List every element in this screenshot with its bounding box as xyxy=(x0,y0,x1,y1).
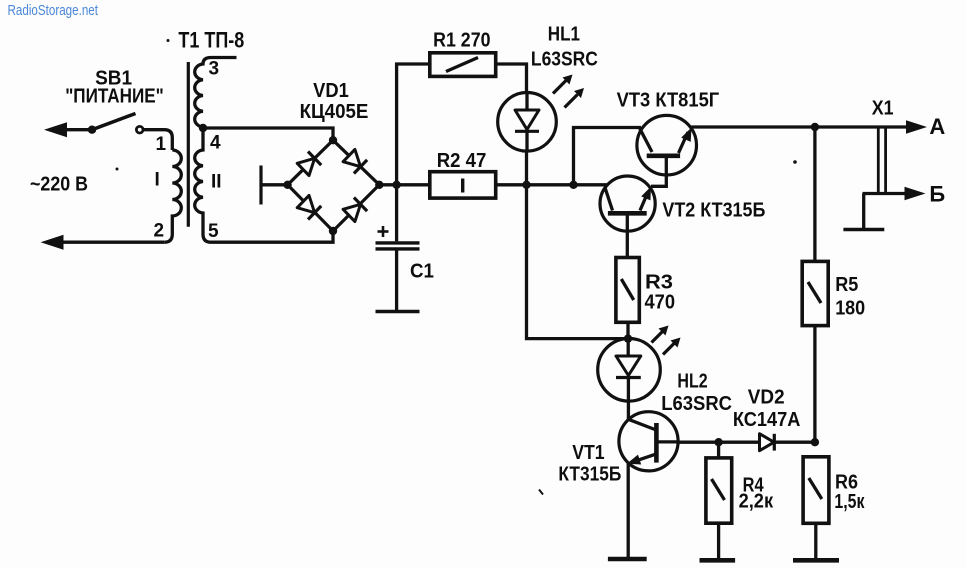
speck near T1 label xyxy=(167,39,170,42)
wire VT1 emitter to ground xyxy=(627,464,630,559)
R2 power mark xyxy=(461,179,464,193)
wire pin5 to bridge bottom xyxy=(211,231,333,242)
node R5-R6-VD2 xyxy=(811,438,819,446)
node bridge right xyxy=(375,181,383,189)
wire R3 to HL2 xyxy=(626,322,629,338)
svg-text:~220 В: ~220 В xyxy=(30,173,88,196)
speck left of transformer xyxy=(116,168,119,171)
wire R1 branch riser xyxy=(397,64,430,185)
transistor VT3 xyxy=(637,115,697,186)
svg-text:5: 5 xyxy=(208,221,219,242)
arrow output Б xyxy=(905,187,926,201)
svg-text:II: II xyxy=(211,172,222,193)
switch SB1 lever xyxy=(92,114,136,130)
transistor VT2 xyxy=(600,176,655,258)
svg-text:180: 180 xyxy=(835,296,865,319)
node switch pivot xyxy=(88,126,96,134)
wire HL2 to VT1 collector xyxy=(627,401,630,420)
wire input bottom xyxy=(52,241,164,244)
connector X1 pins xyxy=(878,127,885,194)
transformer T1 secondary winding 3-4 xyxy=(195,58,237,128)
transistor VT1 xyxy=(619,412,678,471)
svg-text:VT3 КТ815Г: VT3 КТ815Г xyxy=(617,89,720,112)
arrow input top xyxy=(44,122,67,137)
svg-text:I: I xyxy=(155,170,160,191)
wire bridge plus to rail node xyxy=(379,183,430,186)
svg-text:Б: Б xyxy=(929,182,945,207)
HL1 light arrow 1 xyxy=(553,75,573,94)
R5 power mark xyxy=(808,282,821,303)
capacitor C1 xyxy=(376,185,420,311)
R3 power mark xyxy=(621,279,633,300)
transformer T1 core xyxy=(187,62,190,227)
svg-text:X1: X1 xyxy=(872,97,894,120)
svg-text:RadioStorage.net: RadioStorage.net xyxy=(8,3,99,19)
node rail-HL1 xyxy=(522,181,530,189)
resistor R1 xyxy=(430,53,496,77)
wire switch to transformer pin1 xyxy=(143,130,172,150)
svg-text:L63SRC: L63SRC xyxy=(531,47,598,70)
ground VT1 xyxy=(608,557,647,562)
ground R6 xyxy=(793,558,839,563)
node transformer tap xyxy=(199,124,207,132)
wire rail to HL2 node xyxy=(527,185,629,339)
resistor R3 xyxy=(616,258,639,323)
svg-text:КС147А: КС147А xyxy=(733,408,801,431)
svg-text:R2 47: R2 47 xyxy=(437,149,487,172)
svg-text:VT2 КТ315Б: VT2 КТ315Б xyxy=(662,199,765,222)
svg-text:3: 3 xyxy=(209,59,220,80)
svg-text:КТ315Б: КТ315Б xyxy=(558,463,621,486)
node bridge left xyxy=(283,181,291,189)
svg-text:R1 270: R1 270 xyxy=(433,29,490,52)
svg-text:470: 470 xyxy=(645,291,676,314)
svg-text:HL2: HL2 xyxy=(677,370,707,393)
node rail-R5 xyxy=(811,123,819,131)
svg-text:L63SRC: L63SRC xyxy=(661,392,732,415)
wire output Б xyxy=(863,192,909,195)
node HL2 top xyxy=(624,334,632,342)
svg-text:Т1 ТП-8: Т1 ТП-8 xyxy=(178,28,244,53)
wire bridge minus stub xyxy=(261,183,288,186)
resistor R5 xyxy=(802,261,828,325)
terminal bar minus xyxy=(259,166,262,205)
switch SB1 contact xyxy=(136,126,143,133)
zener diode VD2 xyxy=(760,434,775,451)
wire VD2 to R5/R6 node xyxy=(774,441,815,444)
resistor R4 xyxy=(706,458,732,523)
wire tap to bridge top xyxy=(203,128,333,140)
speck right of VT2 label xyxy=(793,160,797,164)
arrow input bottom xyxy=(41,235,64,250)
wire R5 to VD2 node xyxy=(813,326,816,443)
svg-text:2: 2 xyxy=(154,221,165,242)
transformer T1 primary winding I xyxy=(164,150,181,242)
wire R6 bottom xyxy=(814,523,817,560)
svg-text:VD1: VD1 xyxy=(313,79,349,102)
resistor R2 xyxy=(430,172,496,198)
R1 power mark xyxy=(446,58,478,72)
diode bridge bottom-left xyxy=(297,195,322,220)
R6 power mark xyxy=(809,478,822,499)
wire HL1 cathode to rail xyxy=(525,151,528,185)
node rail-C1 xyxy=(392,181,400,189)
diode bridge bottom-right xyxy=(342,197,367,222)
bridge rectifier VD1 diamond xyxy=(288,140,380,231)
wire VT1 base to VD2 xyxy=(678,441,759,444)
svg-text:2,2к: 2,2к xyxy=(739,490,774,513)
ground R4 xyxy=(700,558,736,563)
wire R1 to HL1 anode xyxy=(496,64,527,93)
wire Б to common xyxy=(862,194,865,229)
wire input top (to switch) xyxy=(56,128,92,131)
common bar C1 xyxy=(376,310,420,313)
diode bridge top-right xyxy=(342,149,367,174)
common bar X1 xyxy=(843,228,884,232)
resistor R6 xyxy=(803,457,829,524)
svg-text:"ПИТАНИЕ": "ПИТАНИЕ" xyxy=(65,84,164,107)
speck below C1 xyxy=(539,490,543,495)
transformer T1 secondary winding 4-5 (II) xyxy=(195,128,211,242)
wire rail to R5 xyxy=(813,127,816,261)
svg-text:4: 4 xyxy=(210,133,221,154)
HL2 light arrow 2 xyxy=(663,338,681,355)
svg-text:R5: R5 xyxy=(835,273,858,296)
LED HL1 xyxy=(498,93,557,152)
capacitor C1 plus sign xyxy=(378,226,389,237)
arrow output A xyxy=(906,120,927,134)
svg-text:КЦ405Е: КЦ405Е xyxy=(300,100,369,123)
diode bridge top-left xyxy=(297,151,322,176)
wire rail R2 to VT2 xyxy=(496,183,608,186)
svg-text:C1: C1 xyxy=(410,260,434,283)
R4 power mark xyxy=(712,479,725,500)
wire R4 top xyxy=(717,442,720,458)
node bridge bottom xyxy=(329,227,337,235)
svg-text:VD2: VD2 xyxy=(748,386,785,409)
node bridge top xyxy=(329,136,337,144)
svg-text:1: 1 xyxy=(156,134,167,155)
LED HL2 xyxy=(598,339,661,402)
wire VT3 collector branch xyxy=(574,128,642,185)
svg-text:VT1: VT1 xyxy=(572,441,604,464)
svg-text:HL1: HL1 xyxy=(548,23,580,46)
HL2 light arrow 1 xyxy=(652,326,669,343)
wire VT3 emitter to X1 xyxy=(691,125,910,128)
HL1 light arrow 2 xyxy=(565,88,585,108)
node rail-VT3 xyxy=(569,181,577,189)
wire R4 bottom xyxy=(717,523,720,560)
svg-text:А: А xyxy=(929,114,945,139)
node R4 top xyxy=(714,438,722,446)
svg-text:1,5к: 1,5к xyxy=(834,490,865,513)
